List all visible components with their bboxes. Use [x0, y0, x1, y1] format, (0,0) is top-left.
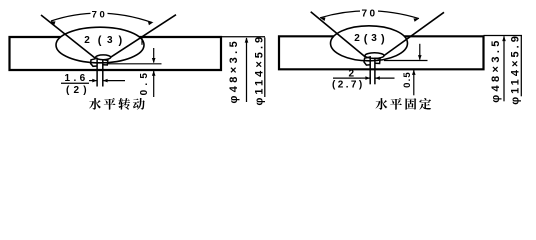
left diameter leader line 2 — [264, 38, 266, 98]
svg-text:φ114×5.9: φ114×5.9 — [509, 33, 521, 105]
svg-text:2: 2 — [354, 33, 360, 44]
left weld cap ellipse — [56, 27, 144, 63]
svg-text:(: ( — [98, 35, 102, 47]
right groove left bevel line — [311, 12, 366, 57]
svg-text:φ114×5.9: φ114×5.9 — [253, 34, 265, 106]
svg-text:(: ( — [364, 33, 368, 45]
left top extension line for diameter leaders — [221, 36, 265, 38]
svg-text:(2): (2) — [66, 85, 91, 96]
svg-text:): ) — [119, 35, 123, 47]
right diameter leader line 2 — [520, 36, 522, 96]
left root gap left edge — [96, 58, 98, 87]
right 0.5 upper arrow — [419, 44, 421, 60]
left 0.5 lower arrow — [153, 71, 155, 97]
svg-text:0.5: 0.5 — [139, 69, 150, 96]
left 0.5 upper arrow — [153, 48, 155, 63]
right groove right bevel line — [384, 12, 444, 56]
svg-text:1.6: 1.6 — [65, 73, 89, 84]
left groove left bevel line — [41, 15, 96, 59]
right root bead ellipse — [365, 53, 384, 59]
right weld cap ellipse — [331, 26, 408, 61]
left 0.5 extension line — [108, 63, 162, 65]
left root bead ellipse — [96, 55, 111, 60]
svg-text:70: 70 — [362, 8, 378, 19]
right 0.5 extension line — [384, 60, 428, 62]
left diameter leader line 1 — [246, 38, 248, 102]
right root right bevel face — [375, 58, 380, 63]
right root gap left edge — [369, 56, 371, 84]
svg-text:(2.7): (2.7) — [332, 80, 365, 91]
left root left bevel face — [91, 59, 97, 67]
right root gap dimension arrows — [361, 77, 370, 79]
left 70-degree dimension arc — [51, 13, 152, 22]
left root right bevel face — [103, 60, 108, 65]
left small tick — [141, 38, 143, 45]
left groove right bevel line — [110, 15, 176, 58]
right diameter leader line 1 — [503, 36, 505, 101]
right root gap right edge — [374, 58, 376, 85]
svg-text:φ48×3.5: φ48×3.5 — [228, 38, 240, 104]
right 70-degree dimension arc — [320, 11, 419, 19]
left pipe wall cross-section rectangle (top edge interrupted by weld ellipse) — [10, 37, 222, 70]
right pipe wall cross-section rectangle (top edge interrupted by weld ellipse) — [279, 36, 484, 69]
right 0.5 lower arrow — [413, 70, 415, 95]
right root left bevel face — [364, 57, 370, 65]
left caption shuiping zhuandong — [89, 98, 101, 110]
svg-text:3: 3 — [371, 33, 377, 44]
right top extension line for diameter leaders — [484, 35, 523, 37]
left root gap right edge — [102, 59, 104, 87]
svg-text:φ48×3.5: φ48×3.5 — [490, 37, 502, 103]
svg-text:70: 70 — [92, 9, 108, 20]
svg-text:2: 2 — [84, 35, 90, 46]
svg-text:0.5: 0.5 — [402, 71, 413, 88]
svg-text:3: 3 — [107, 35, 113, 46]
left root gap dimension arrows — [89, 80, 97, 82]
svg-text:): ) — [381, 33, 385, 45]
right caption shuiping guding — [375, 98, 387, 110]
